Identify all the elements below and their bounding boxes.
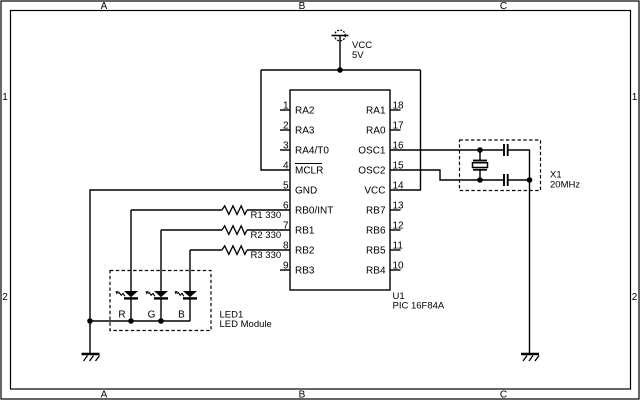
label X1 20MHz xyxy=(550,170,580,191)
LED module dashed box xyxy=(110,271,211,331)
wire LED common bottom xyxy=(90,320,190,322)
wire GND pin 5 to left rail xyxy=(90,190,290,353)
svg-text:5V: 5V xyxy=(352,50,364,61)
op IC U1 body xyxy=(290,90,390,290)
svg-text:RB1: RB1 xyxy=(295,226,315,237)
node OSC2 junction xyxy=(477,177,483,183)
crystal module dashed box xyxy=(460,140,541,191)
svg-text:RA4/T0: RA4/T0 xyxy=(295,146,329,157)
svg-text:20MHz: 20MHz xyxy=(550,180,580,191)
LED B xyxy=(174,291,197,298)
svg-text:RB3: RB3 xyxy=(295,266,315,277)
svg-text:2: 2 xyxy=(2,292,8,303)
svg-text:RA0: RA0 xyxy=(366,126,386,137)
node VCC rail junction xyxy=(337,67,343,73)
pin 12 RB6 stub xyxy=(390,229,401,231)
svg-text:12: 12 xyxy=(393,221,405,232)
svg-text:B: B xyxy=(178,310,185,321)
svg-text:RB0/INT: RB0/INT xyxy=(295,206,333,217)
svg-text:GND: GND xyxy=(295,186,317,197)
svg-text:B: B xyxy=(299,1,306,12)
svg-text:4: 4 xyxy=(283,161,289,172)
svg-text:14: 14 xyxy=(393,181,405,192)
svg-text:17: 17 xyxy=(393,121,405,132)
net label VCC 5V xyxy=(352,40,372,61)
resistor R1 xyxy=(222,206,247,215)
capacitor C top (plates) xyxy=(504,144,508,156)
MCLR overline xyxy=(295,163,322,165)
node LED R junction xyxy=(128,318,134,324)
wire right down to ground xyxy=(529,180,531,353)
svg-text:1: 1 xyxy=(283,101,289,112)
svg-text:3: 3 xyxy=(283,141,289,152)
pin 3 RA4/T0 stub xyxy=(280,149,290,151)
svg-text:LED Module: LED Module xyxy=(220,319,272,330)
svg-text:2: 2 xyxy=(632,292,638,303)
node ground rail junction xyxy=(87,318,93,324)
svg-text:R2 330: R2 330 xyxy=(251,230,282,241)
wire R1 down to LED R anode xyxy=(130,210,132,291)
svg-text:9: 9 xyxy=(283,261,289,272)
svg-text:B: B xyxy=(299,390,306,400)
wire pin 7 RB1 with resistor R2 xyxy=(247,229,290,231)
svg-text:1: 1 xyxy=(632,92,638,103)
wire R2 down to LED G anode xyxy=(160,230,162,291)
svg-text:RA2: RA2 xyxy=(295,106,315,117)
wire LED G cathode down xyxy=(160,298,162,321)
pin numbers left xyxy=(283,101,289,272)
svg-text:C: C xyxy=(500,390,507,400)
pin numbers right xyxy=(393,101,405,272)
LED G xyxy=(145,291,168,298)
wire lower cap to right xyxy=(508,179,530,181)
svg-text:VCC: VCC xyxy=(364,186,385,197)
node OSC1 junction xyxy=(477,147,483,153)
svg-text:RB5: RB5 xyxy=(366,246,386,257)
svg-text:R: R xyxy=(118,310,125,321)
svg-text:10: 10 xyxy=(393,261,405,272)
crystal X1 xyxy=(473,150,488,180)
svg-text:A: A xyxy=(101,1,108,12)
pin 13 RB7 stub xyxy=(390,209,401,211)
svg-text:18: 18 xyxy=(393,101,405,112)
label LED1 LED Module xyxy=(220,310,272,331)
pin 2 RA3 stub xyxy=(280,129,290,131)
resistor R3 xyxy=(222,246,247,255)
svg-text:RB4: RB4 xyxy=(366,266,386,277)
svg-text:R1 330: R1 330 xyxy=(251,210,282,221)
wire VCC symbol to rail xyxy=(339,36,341,71)
svg-text:R3 330: R3 330 xyxy=(251,250,282,261)
ground left xyxy=(82,354,100,361)
ground right xyxy=(521,354,539,361)
pin 10 RB4 stub xyxy=(390,269,401,271)
node LED G junction xyxy=(158,318,164,324)
LED R xyxy=(115,291,138,298)
svg-text:C: C xyxy=(500,1,507,12)
wire pin 8 RB2 with resistor R3 xyxy=(247,249,290,251)
wire cap to right corner xyxy=(508,150,530,180)
svg-text:2: 2 xyxy=(283,121,289,132)
svg-text:RB7: RB7 xyxy=(366,206,386,217)
svg-text:13: 13 xyxy=(393,201,405,212)
svg-text:OSC2: OSC2 xyxy=(358,166,386,177)
node right rail junction xyxy=(527,177,533,183)
svg-text:OSC1: OSC1 xyxy=(358,146,386,157)
pin 18 RA1 stub xyxy=(390,109,401,111)
wire OSC1 pin 16 to capacitor xyxy=(390,149,504,151)
wire pin 6 RB0 with resistor R1 xyxy=(247,209,290,211)
svg-text:1: 1 xyxy=(2,92,8,103)
power symbol VCC xyxy=(332,30,349,41)
wire LED R cathode down xyxy=(130,298,132,321)
resistor R2 xyxy=(222,226,247,235)
svg-text:RA3: RA3 xyxy=(295,126,315,137)
capacitor C bottom (plates) xyxy=(504,174,508,186)
svg-text:G: G xyxy=(148,310,156,321)
pin 1 RA2 stub xyxy=(280,109,290,111)
pin name labels right column xyxy=(358,106,386,277)
wire VCC top rail xyxy=(261,69,421,71)
wire R3 down to LED B anode xyxy=(189,250,191,291)
pin name labels left column xyxy=(295,106,333,277)
svg-text:RA1: RA1 xyxy=(366,106,386,117)
wire VCC left branch down to MCLR xyxy=(261,70,290,170)
svg-text:PIC 16F84A: PIC 16F84A xyxy=(393,301,445,312)
svg-text:A: A xyxy=(101,390,108,400)
wire VCC right branch down to pin 14 xyxy=(390,70,421,190)
wire OSC2 pin 15 to lower rail xyxy=(390,170,504,180)
svg-text:RB2: RB2 xyxy=(295,246,315,257)
pin 9 RB3 stub xyxy=(280,269,290,271)
pin 11 RB5 stub xyxy=(390,249,401,251)
pin 17 RA0 stub xyxy=(390,129,401,131)
svg-text:MCLR: MCLR xyxy=(295,166,323,177)
labels R G B xyxy=(118,310,185,321)
svg-text:RB6: RB6 xyxy=(366,226,386,237)
wire LED B cathode down xyxy=(189,298,191,321)
svg-text:11: 11 xyxy=(393,241,404,252)
